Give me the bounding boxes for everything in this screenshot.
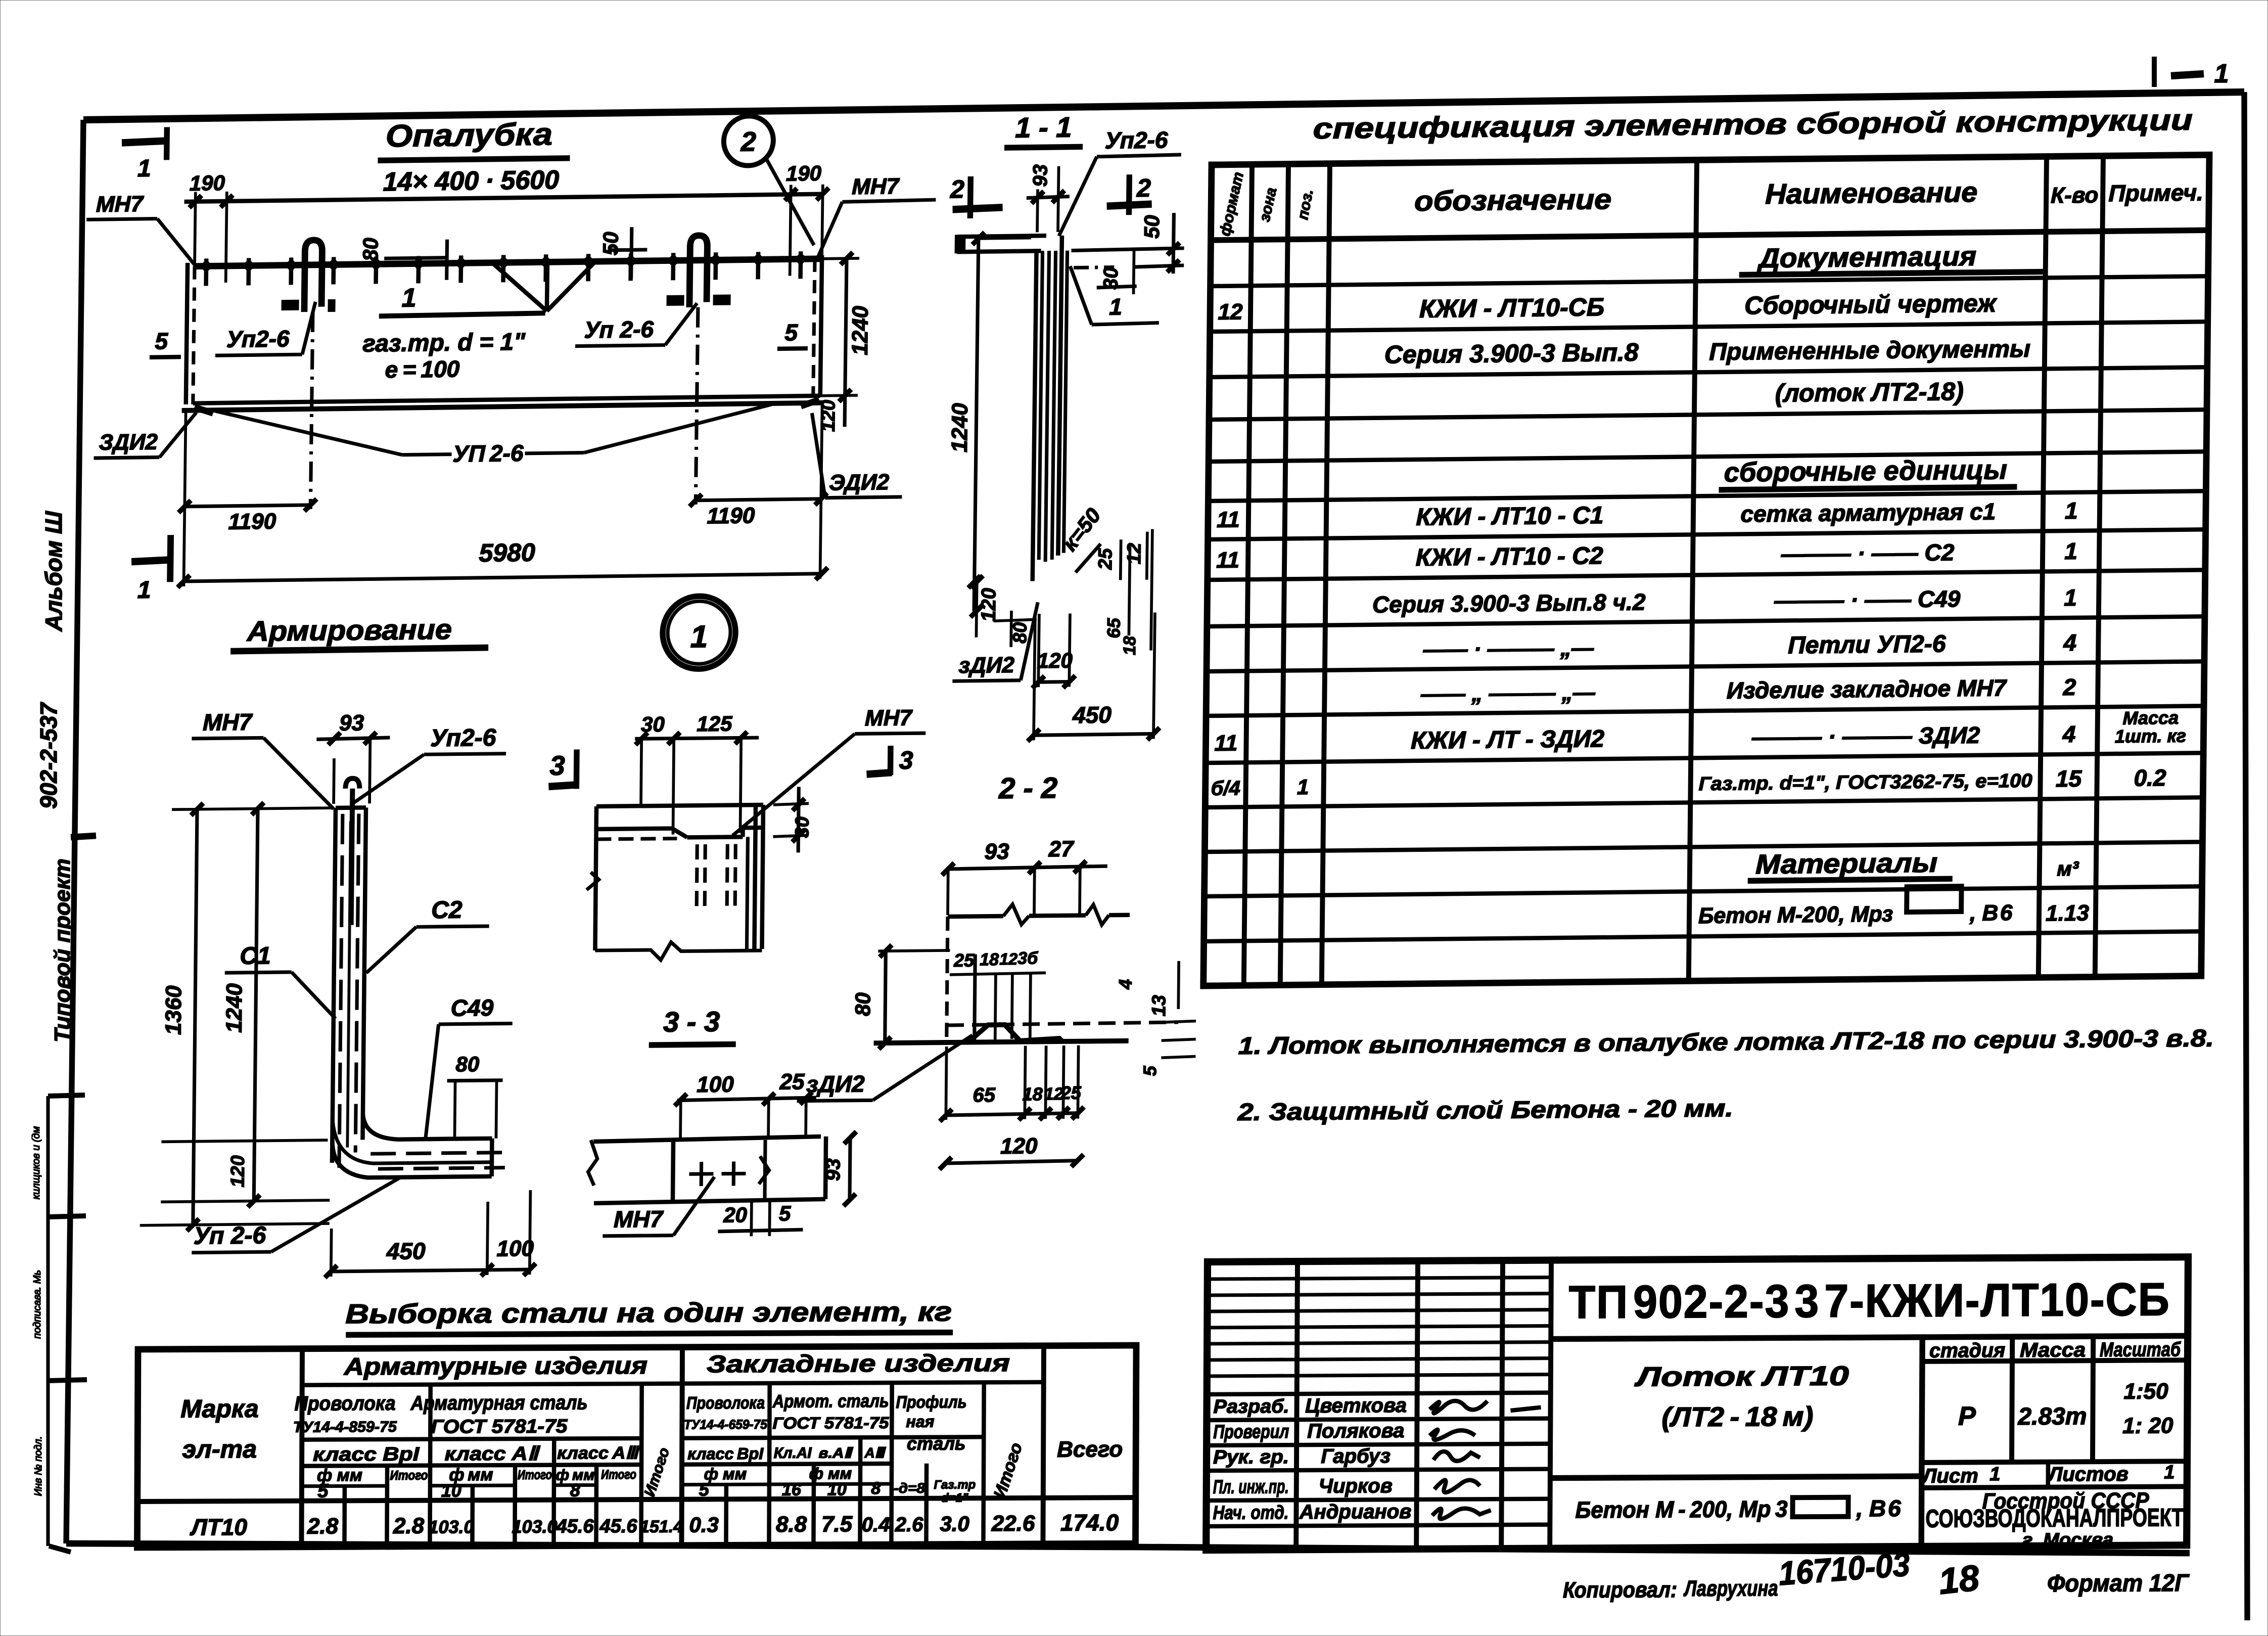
svg-text:в.АⅡ: в.АⅡ bbox=[819, 1445, 854, 1461]
reinforcement L-section bbox=[332, 777, 509, 1178]
svg-text:ЗДИ2: ЗДИ2 bbox=[99, 430, 158, 455]
label С1 with leader bbox=[224, 942, 337, 1020]
svg-text:эл-та: эл-та bbox=[182, 1435, 257, 1464]
svg-text:Всего: Всего bbox=[1057, 1437, 1123, 1462]
svg-text:К-во: К-во bbox=[2051, 183, 2099, 208]
svg-text:Типовой проект: Типовой проект bbox=[50, 858, 75, 1042]
svg-text:Бетон М-200, Мрз: Бетон М-200, Мрз bbox=[1698, 901, 1893, 928]
bottom bracket leader УП2-6 bbox=[215, 404, 771, 470]
svg-text:1190: 1190 bbox=[707, 503, 755, 528]
svg-text:2.6: 2.6 bbox=[895, 1514, 924, 1536]
svg-text:5: 5 bbox=[779, 1201, 791, 1225]
dim 5980 bbox=[177, 403, 829, 587]
svg-text:(ЛТ2 - 18 м): (ЛТ2 - 18 м) bbox=[1661, 1401, 1813, 1432]
svg-text:Профиль: Профиль bbox=[896, 1392, 966, 1412]
svg-text:б/4: б/4 bbox=[1211, 777, 1240, 800]
dim 50 (right of flange) bbox=[1071, 213, 1184, 275]
dim 1190 (right) bbox=[689, 493, 827, 529]
dim 5 (left wall) bbox=[150, 328, 181, 357]
svg-text:Газ.тр: Газ.тр bbox=[934, 1478, 976, 1491]
svg-text:ЛТ10: ЛТ10 bbox=[190, 1514, 247, 1540]
svg-text:Итого: Итого bbox=[601, 1467, 636, 1482]
svg-text:ф мм: ф мм bbox=[704, 1465, 747, 1483]
dims 30 / 125 (3-3 top) bbox=[634, 711, 759, 835]
svg-text:Уп2-6: Уп2-6 bbox=[430, 724, 496, 752]
corner hook left (ЗДИ2 plate) bbox=[195, 407, 213, 413]
svg-text:——— · ——— ЗДИ2: ——— · ——— ЗДИ2 bbox=[1751, 722, 1980, 751]
dim lines 1360 / 1240 (left) bbox=[140, 802, 334, 1232]
svg-text:класс АⅡ: класс АⅡ bbox=[445, 1443, 541, 1465]
svg-text:сетка арматурная с1: сетка арматурная с1 bbox=[1740, 498, 1996, 527]
svg-text:1 - 1: 1 - 1 bbox=[1015, 111, 1072, 144]
formwork plan outline bbox=[182, 255, 826, 411]
svg-text:Итого: Итого bbox=[518, 1467, 552, 1482]
lifting loop УП2-6 (right) bbox=[664, 235, 731, 505]
svg-text:1: 1 bbox=[2064, 538, 2077, 564]
svg-text:класс ВрI: класс ВрI bbox=[313, 1444, 420, 1466]
svg-text:СОЮЗВОДОКАНАЛПРОЕКТ: СОЮЗВОДОКАНАЛПРОЕКТ bbox=[1925, 1503, 2183, 1533]
svg-text:30: 30 bbox=[792, 816, 813, 838]
dim 5 (right wall) bbox=[777, 319, 808, 349]
MН7 plate strip view (bottom) bbox=[588, 1137, 826, 1203]
svg-text:103.0: 103.0 bbox=[512, 1516, 557, 1537]
svg-text:КЖИ - ЛТ10 - С2: КЖИ - ЛТ10 - С2 bbox=[1415, 542, 1603, 571]
svg-text:80: 80 bbox=[851, 992, 874, 1016]
label МН7 with leader (3-3) bbox=[732, 705, 925, 835]
svg-text:10: 10 bbox=[441, 1480, 461, 1501]
svg-text:газ.тр. d = 1": газ.тр. d = 1" bbox=[362, 329, 526, 357]
svg-text:С2: С2 bbox=[431, 896, 462, 924]
svg-text:50: 50 bbox=[598, 232, 623, 255]
svg-text:65: 65 bbox=[1103, 617, 1124, 639]
svg-text:18: 18 bbox=[1937, 1558, 1981, 1602]
svg-text:Проволока: Проволока bbox=[294, 1392, 395, 1415]
svg-text:11: 11 bbox=[1216, 548, 1239, 572]
section mark 3 (big, left) bbox=[548, 749, 577, 789]
spec rows content bbox=[1210, 239, 2191, 934]
label С49 with leader bbox=[425, 994, 513, 1141]
svg-text:120: 120 bbox=[1000, 1133, 1038, 1159]
svg-text:12: 12 bbox=[1124, 543, 1145, 565]
svg-text:80: 80 bbox=[455, 1052, 479, 1076]
svg-text:МН7: МН7 bbox=[865, 705, 913, 731]
svg-text:Итого: Итого bbox=[390, 1468, 428, 1483]
svg-text:Наименование: Наименование bbox=[1765, 176, 1978, 210]
svg-text:сталь: сталь bbox=[907, 1433, 965, 1453]
svg-text:100: 100 bbox=[697, 1072, 734, 1098]
svg-text:——— · —— С49: ——— · —— С49 bbox=[1774, 585, 1961, 614]
svg-text:4: 4 bbox=[2063, 629, 2076, 656]
svg-text:e = 100: e = 100 bbox=[385, 355, 460, 383]
svg-text:г. Москва: г. Москва bbox=[2022, 1529, 2113, 1551]
svg-text:103.0: 103.0 bbox=[428, 1516, 474, 1537]
label ЭДИ2 (bottom-right) with leader bbox=[811, 412, 903, 498]
svg-text:С1: С1 bbox=[240, 942, 271, 970]
dim 120 (left, vertical) bbox=[970, 575, 1000, 638]
bottom annotation: Копировал bbox=[1563, 1544, 2190, 1604]
svg-text:1: 1 bbox=[2164, 1462, 2174, 1483]
svg-text:120: 120 bbox=[227, 1155, 249, 1188]
svg-text:Цветкова: Цветкова bbox=[1305, 1394, 1407, 1417]
svg-text:22.6: 22.6 bbox=[991, 1511, 1035, 1536]
dim 80 (left loop) bbox=[358, 237, 447, 281]
dim 30 (below flange) bbox=[1097, 250, 1137, 295]
svg-text:ЭДИ2: ЭДИ2 bbox=[829, 470, 890, 495]
dim 120 (below leg) bbox=[1032, 613, 1076, 688]
svg-text:Армирование: Армирование bbox=[246, 613, 452, 647]
svg-text:450: 450 bbox=[386, 1238, 426, 1264]
svg-text:80: 80 bbox=[358, 238, 383, 261]
balloon detail 2 bbox=[722, 115, 815, 246]
svg-text:Примененные документы: Примененные документы bbox=[1709, 336, 2030, 366]
svg-text:3.0: 3.0 bbox=[940, 1512, 969, 1535]
svg-text:5: 5 bbox=[317, 1480, 329, 1502]
svg-text:1: 20: 1: 20 bbox=[2122, 1413, 2173, 1438]
svg-text:Арматурная сталь: Арматурная сталь bbox=[410, 1391, 588, 1414]
svg-text:1240: 1240 bbox=[848, 305, 873, 355]
svg-text:Армот. сталь: Армот. сталь bbox=[772, 1390, 889, 1412]
svg-text:1: 1 bbox=[2065, 497, 2078, 524]
svg-text:Масса: Масса bbox=[2020, 1339, 2086, 1361]
svg-text:зДИ2: зДИ2 bbox=[806, 1070, 865, 1097]
svg-text:Листов: Листов bbox=[2047, 1463, 2128, 1486]
svg-text:11: 11 bbox=[1217, 507, 1240, 532]
svg-text:ТУ14-4-859-75: ТУ14-4-859-75 bbox=[293, 1419, 397, 1436]
svg-text:2: 2 bbox=[740, 126, 756, 157]
dim 1240 (section 1-1 left) bbox=[945, 232, 1031, 612]
svg-text:Кл.АI: Кл.АI bbox=[774, 1445, 812, 1462]
label ЗДИ2 with leader (2-2) bbox=[797, 1035, 973, 1101]
svg-text:, В 6: , В 6 bbox=[1969, 900, 2013, 926]
title block right: стадия масса масштаб bbox=[1921, 1338, 2184, 1552]
svg-text:Пл. инж.пр.: Пл. инж.пр. bbox=[1213, 1476, 1289, 1498]
svg-text:Лаврухина: Лаврухина bbox=[1683, 1576, 1778, 1601]
dims 20 / 5 (strip bottom) bbox=[718, 1201, 803, 1237]
svg-text:Формат 12Г: Формат 12Г bbox=[2047, 1570, 2190, 1597]
steel table title bbox=[345, 1297, 953, 1335]
dim 120 (right bottom) bbox=[818, 395, 845, 432]
svg-text:5: 5 bbox=[699, 1479, 710, 1499]
svg-text:класс ВрI: класс ВрI bbox=[687, 1444, 764, 1463]
dims 93 / 27 (2-2 top) bbox=[942, 836, 1107, 915]
svg-text:1360: 1360 bbox=[161, 985, 187, 1035]
svg-text:, В 6: , В 6 bbox=[1856, 1495, 1901, 1521]
label МН7 with leader (armir) bbox=[191, 708, 335, 810]
svg-text:93: 93 bbox=[822, 1158, 844, 1181]
svg-text:4: 4 bbox=[1115, 979, 1136, 990]
dim 50 (right of centre) bbox=[598, 227, 647, 278]
corner hook right (ЗДИ2 plate) bbox=[801, 400, 819, 406]
section 1-1 wall cross-section bbox=[953, 233, 1115, 582]
section mark 3 (right) bbox=[866, 746, 913, 776]
dim 80 (left of leg) bbox=[993, 610, 1037, 647]
label Уп2-6 with leader (1-1) bbox=[1059, 126, 1182, 236]
svg-text:100: 100 bbox=[496, 1236, 534, 1261]
signature labels bbox=[1213, 1394, 1412, 1524]
svg-text:Альбом Ш: Альбом Ш bbox=[40, 511, 67, 632]
svg-text:4: 4 bbox=[2062, 721, 2076, 747]
dim 93 (section 1-1 top) bbox=[1026, 164, 1070, 232]
svg-text:50: 50 bbox=[1140, 215, 1164, 239]
svg-text:2.83т: 2.83т bbox=[2017, 1403, 2087, 1430]
svg-text:1:50: 1:50 bbox=[2124, 1379, 2169, 1403]
svg-text:93: 93 bbox=[1029, 164, 1052, 187]
svg-text:Примеч.: Примеч. bbox=[2108, 179, 2203, 206]
svg-text:обозначение: обозначение bbox=[1414, 183, 1612, 217]
spec header texts bbox=[1217, 161, 2204, 238]
svg-text:МН7: МН7 bbox=[203, 709, 253, 736]
svg-text:125: 125 bbox=[697, 712, 732, 736]
svg-text:Лоток ЛТ10: Лоток ЛТ10 bbox=[1634, 1361, 1849, 1392]
svg-text:1: 1 bbox=[137, 155, 151, 182]
svg-text:1: 1 bbox=[690, 619, 708, 654]
svg-text:Серия 3.900-3 Вып.8: Серия 3.900-3 Вып.8 bbox=[1384, 338, 1639, 369]
svg-text:УП 2-6: УП 2-6 bbox=[452, 440, 524, 467]
svg-text:190: 190 bbox=[786, 161, 822, 186]
label Уп2-6 with leader (armir top) bbox=[354, 724, 506, 803]
svg-text:АⅢ: АⅢ bbox=[864, 1445, 886, 1461]
svg-text:93: 93 bbox=[984, 839, 1009, 864]
svg-text:Уп 2-6: Уп 2-6 bbox=[194, 1222, 266, 1249]
title block grid bbox=[1206, 1257, 2188, 1550]
svg-text:—— · ——— „—: —— · ——— „— bbox=[1422, 635, 1594, 662]
svg-text:Петли УП2-6: Петли УП2-6 bbox=[1788, 630, 1946, 659]
svg-text:ГОСТ 5781-75: ГОСТ 5781-75 bbox=[431, 1416, 568, 1438]
svg-text:Арматурные изделия: Арматурные изделия bbox=[344, 1352, 647, 1380]
svg-text:2: 2 bbox=[950, 175, 965, 203]
svg-text:1190: 1190 bbox=[228, 509, 276, 534]
svg-text:Рук. гр.: Рук. гр. bbox=[1213, 1446, 1289, 1468]
svg-text:8: 8 bbox=[871, 1479, 881, 1498]
svg-text:18: 18 bbox=[1120, 636, 1139, 655]
svg-text:ГОСТ 5781-75: ГОСТ 5781-75 bbox=[772, 1414, 889, 1432]
svg-text:МН7: МН7 bbox=[614, 1206, 664, 1233]
3-3 corner plan view bbox=[586, 805, 763, 961]
signature squiggles bbox=[1429, 1400, 1541, 1519]
svg-text:КЖИ - ЛТ - ЗДИ2: КЖИ - ЛТ - ЗДИ2 bbox=[1411, 725, 1605, 754]
svg-text:—— „ ——— „—: —— „ ——— „— bbox=[1420, 680, 1596, 706]
label Уп 2-6 (bottom) with leader bbox=[192, 1177, 400, 1253]
steel table grid bbox=[137, 1345, 1136, 1548]
svg-text:2. Защитный слой Бетона: 2. Защитный слой Бетона - 20 мм. bbox=[1237, 1095, 1734, 1126]
svg-text:Опалубка: Опалубка bbox=[386, 117, 553, 154]
svg-text:Уп 2-6: Уп 2-6 bbox=[584, 316, 654, 343]
svg-text:Серия 3.900-3 Вып.8 ч.2: Серия 3.900-3 Вып.8 ч.2 bbox=[1372, 588, 1646, 617]
label Уп 2-6 (right) with leader bbox=[575, 303, 697, 346]
specification table grid bbox=[1204, 155, 2209, 986]
svg-text:Чирков: Чирков bbox=[1319, 1475, 1393, 1497]
label МН7 (top-left) with leader bbox=[86, 191, 196, 266]
svg-text:45.6: 45.6 bbox=[556, 1516, 594, 1537]
lifting loop УП2-6 (left) bbox=[279, 240, 336, 509]
svg-text:Закладные изделия: Закладные изделия bbox=[707, 1350, 1010, 1378]
svg-text:5: 5 bbox=[784, 319, 799, 345]
svg-text:93: 93 bbox=[339, 710, 364, 735]
svg-text:25: 25 bbox=[779, 1069, 805, 1094]
svg-text:1: 1 bbox=[2064, 584, 2077, 611]
svg-text:ТП 902-2-3 3 7-КЖИ-ЛТ10-СБ: ТП 902-2-3 3 7-КЖИ-ЛТ10-СБ bbox=[1568, 1274, 2170, 1328]
svg-text:МН7: МН7 bbox=[852, 174, 900, 199]
svg-text:20: 20 bbox=[723, 1203, 747, 1226]
dim 80 (leg end) bbox=[446, 1052, 503, 1139]
dim 93 (strip right, rotated) bbox=[822, 1131, 856, 1206]
svg-text:120: 120 bbox=[1037, 648, 1073, 672]
label С2 with leader bbox=[366, 896, 489, 973]
svg-text:190: 190 bbox=[190, 171, 225, 195]
svg-text:Р: Р bbox=[1958, 1401, 1976, 1431]
svg-text:27: 27 bbox=[1048, 837, 1075, 861]
svg-text:0.3: 0.3 bbox=[689, 1513, 719, 1536]
svg-text:Бетон М - 200, Мр 3: Бетон М - 200, Мр 3 bbox=[1575, 1495, 1788, 1523]
svg-text:Проволока: Проволока bbox=[686, 1393, 765, 1413]
label Уп2-6 (left) with leader bbox=[215, 302, 315, 355]
title block cell Лоток ЛТ10 (ЛТ2-18м) bbox=[1634, 1361, 1849, 1433]
svg-text:65: 65 bbox=[973, 1084, 996, 1106]
svg-text:Сборочный чертеж: Сборочный чертеж bbox=[1744, 289, 1998, 320]
svg-text:Проверил: Проверил bbox=[1213, 1421, 1289, 1443]
label ЗДИ2 with leader (1-1) bbox=[952, 602, 1038, 681]
svg-text:1.13: 1.13 bbox=[2046, 900, 2089, 926]
svg-text:подписава. Мь: подписава. Мь bbox=[32, 1270, 43, 1339]
left border tick mark bbox=[71, 836, 96, 837]
svg-text:КЖИ - ЛТ10 - С1: КЖИ - ЛТ10 - С1 bbox=[1416, 502, 1603, 531]
dims 25 18 12 30 (2-2 inside) bbox=[949, 948, 1046, 1041]
svg-text:d=1": d=1" bbox=[941, 1491, 968, 1505]
steel table texts bbox=[180, 1349, 1123, 1540]
section mark 1 (top-left) bbox=[121, 127, 168, 182]
svg-text:151.4: 151.4 bbox=[640, 1517, 683, 1536]
svg-text:2: 2 bbox=[1136, 174, 1151, 202]
gas pipe truss mark bbox=[493, 261, 594, 311]
svg-text:ная: ная bbox=[906, 1413, 934, 1431]
svg-text:1: 1 bbox=[2214, 59, 2229, 88]
svg-text:11: 11 bbox=[1214, 731, 1237, 755]
svg-text:902-2-537: 902-2-537 bbox=[35, 702, 62, 809]
svg-text:1: 1 bbox=[1109, 293, 1122, 320]
title 1-1 bbox=[1004, 111, 1083, 148]
svg-text:Нач. отд.: Нач. отд. bbox=[1213, 1502, 1288, 1524]
svg-text:5: 5 bbox=[1139, 1065, 1160, 1076]
svg-text:Андрианов: Андрианов bbox=[1299, 1501, 1412, 1523]
svg-text:12: 12 bbox=[999, 950, 1017, 968]
svg-text:14× 400 ∙ 5600: 14× 400 ∙ 5600 bbox=[383, 165, 559, 197]
svg-text:Инв № подл.: Инв № подл. bbox=[33, 1436, 44, 1496]
svg-text:1: 1 bbox=[1989, 1464, 2000, 1485]
section marks 2|2 bbox=[949, 173, 1152, 219]
svg-text:5980: 5980 bbox=[479, 538, 535, 567]
svg-text:3б: 3б bbox=[1017, 948, 1038, 968]
svg-text:——— · —— С2: ——— · —— С2 bbox=[1781, 539, 1955, 567]
dim 14x400=5600 bbox=[183, 161, 829, 283]
svg-text:Копировал:: Копировал: bbox=[1563, 1577, 1677, 1603]
svg-text:8.8: 8.8 bbox=[776, 1512, 807, 1537]
leader 1 (gas pipe position) bbox=[1070, 265, 1160, 325]
svg-text:стадия: стадия bbox=[1929, 1339, 2005, 1362]
svg-text:2.8: 2.8 bbox=[307, 1514, 339, 1538]
svg-text:7.5: 7.5 bbox=[821, 1512, 853, 1536]
svg-text:2.8: 2.8 bbox=[393, 1514, 425, 1538]
label ЗДИ2 (bottom-left) with leader bbox=[94, 413, 197, 458]
title: Армирование bbox=[230, 613, 489, 651]
svg-text:зДИ2: зДИ2 bbox=[958, 653, 1014, 678]
svg-text:килщиков и (дм: килщиков и (дм bbox=[31, 1126, 42, 1199]
dims 4 / 13 / 5 (2-2 right) bbox=[1114, 961, 1196, 1076]
left margin stamp column bbox=[31, 1095, 87, 1552]
dims 100 / 25 (strip) bbox=[674, 1069, 816, 1140]
label МН7 (strip) with leader bbox=[603, 1177, 714, 1236]
svg-text:Разраб.: Разраб. bbox=[1213, 1396, 1289, 1418]
dims 25 / 12 (corner) bbox=[1095, 532, 1147, 580]
svg-text:3: 3 bbox=[899, 746, 914, 775]
svg-text:3 - 3: 3 - 3 bbox=[663, 1006, 720, 1038]
svg-text:1: 1 bbox=[401, 283, 416, 312]
svg-text:Изделие закладное МН7: Изделие закладное МН7 bbox=[1727, 674, 2008, 704]
svg-text:сборочные единицы: сборочные единицы bbox=[1724, 455, 2008, 488]
svg-text:Материалы: Материалы bbox=[1755, 848, 1938, 880]
label МН7 (top-right) with leader bbox=[818, 173, 936, 257]
svg-text:Уп2-6: Уп2-6 bbox=[226, 325, 290, 352]
callout 1: газ.тр. d=1" e=100 bbox=[362, 282, 545, 383]
title 3-3 bbox=[649, 1005, 736, 1045]
svg-text:1: 1 bbox=[137, 577, 151, 604]
svg-text:МН7: МН7 bbox=[96, 192, 145, 217]
svg-text:2 - 2: 2 - 2 bbox=[998, 771, 1058, 805]
2-2 corner detail bbox=[874, 903, 1179, 1043]
dim 30 (3-3 right) bbox=[773, 787, 813, 853]
dims 65 18 (below leg right) bbox=[1103, 529, 1152, 656]
dim 93 (wall top) bbox=[316, 710, 390, 804]
dim 1240 (right side of plan) bbox=[820, 252, 874, 402]
dim 80 (2-2 left) bbox=[851, 944, 950, 1050]
svg-text:Выборка стали на один эле: Выборка стали на один элемент, кг bbox=[345, 1297, 952, 1330]
svg-text:Документация: Документация bbox=[1757, 241, 1977, 274]
dim 1190 (left) bbox=[177, 409, 317, 586]
svg-text:С49: С49 bbox=[451, 994, 494, 1021]
svg-text:12: 12 bbox=[1218, 299, 1243, 324]
svg-text:КЖИ - ЛТ10-СБ: КЖИ - ЛТ10-СБ bbox=[1419, 293, 1605, 323]
svg-text:16: 16 bbox=[782, 1480, 802, 1499]
svg-text:8: 8 bbox=[570, 1479, 580, 1500]
svg-text:450: 450 bbox=[1072, 701, 1112, 728]
svg-text:-д=8: -д=8 bbox=[894, 1480, 925, 1496]
svg-text:класс АⅢ: класс АⅢ bbox=[557, 1443, 640, 1463]
svg-text:Марка: Марка bbox=[180, 1394, 259, 1423]
balloon detail 1 bbox=[662, 596, 735, 669]
dim 120 (2-2 bottom) bbox=[939, 1133, 1084, 1170]
dim 450 (below leg) bbox=[1028, 612, 1161, 741]
svg-text:18: 18 bbox=[980, 950, 999, 969]
svg-text:1шт. кг: 1шт. кг bbox=[2115, 725, 2186, 747]
svg-text:(лоток ЛТ2-18): (лоток ЛТ2-18) bbox=[1775, 377, 1964, 407]
svg-text:1240: 1240 bbox=[947, 402, 973, 452]
svg-text:1: 1 bbox=[1297, 775, 1309, 799]
svg-text:174.0: 174.0 bbox=[1060, 1509, 1119, 1535]
svg-text:Полякова: Полякова bbox=[1307, 1420, 1404, 1442]
section mark 1 (bottom) bbox=[131, 535, 173, 604]
svg-text:Гарбуз: Гарбуз bbox=[1321, 1445, 1391, 1468]
svg-text:м³: м³ bbox=[2057, 858, 2079, 880]
svg-text:Газ.тр. d=1", ГОСТ3262-75, е=1: Газ.тр. d=1", ГОСТ3262-75, е=100 bbox=[1698, 770, 2032, 795]
svg-text:25: 25 bbox=[953, 950, 975, 971]
svg-text:10: 10 bbox=[827, 1480, 847, 1499]
dims 65 18 12 25 (2-2 bottom) bbox=[940, 1046, 1084, 1122]
svg-text:Масштаб: Масштаб bbox=[2100, 1338, 2181, 1361]
rebar tick marks along top chord bbox=[200, 251, 807, 286]
svg-text:Уп2-6: Уп2-6 bbox=[1105, 126, 1169, 153]
svg-text:3: 3 bbox=[549, 751, 565, 781]
svg-text:Лист: Лист bbox=[1921, 1465, 1978, 1487]
title block concrete note bbox=[1575, 1495, 1901, 1523]
